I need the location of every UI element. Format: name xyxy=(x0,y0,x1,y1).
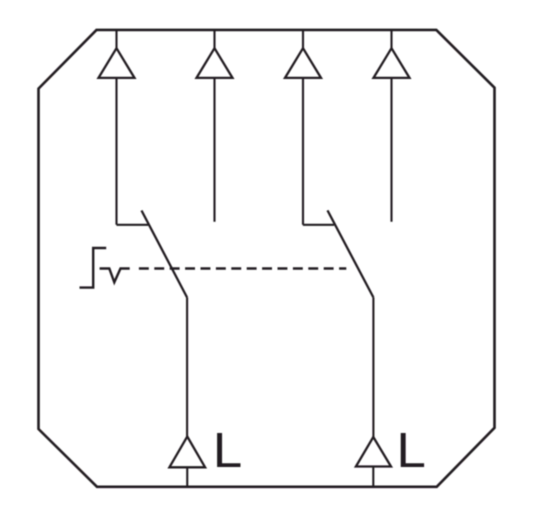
label L (left) xyxy=(213,424,243,478)
wire: S1 to terminal L1 xyxy=(186,298,188,439)
step-function symbol xyxy=(80,248,107,288)
switch S1 blade xyxy=(142,211,188,298)
wire: S2 to terminal L2 xyxy=(372,297,374,438)
svg-text:L: L xyxy=(396,424,426,478)
arrow head output 3 xyxy=(285,48,321,78)
device outline xyxy=(39,30,495,487)
svg-text:L: L xyxy=(213,424,243,478)
wire: arrow 4 down (open end) xyxy=(390,78,392,222)
label L (right) xyxy=(396,424,426,478)
mechanical coupling dashed line xyxy=(139,267,346,269)
wire: top edge to arrow 2 xyxy=(213,30,215,50)
wire: top edge to arrow 3 xyxy=(302,30,304,50)
wire: arrow 2 down (open end) xyxy=(213,78,215,222)
wire: terminal L1 stem xyxy=(186,467,188,487)
switch S2 blade xyxy=(328,210,374,297)
wire: switch S2 fixed contact horizontal xyxy=(303,224,334,226)
terminal L1 arrow head xyxy=(169,437,205,468)
wire: top edge to arrow 1 xyxy=(115,30,117,50)
wire: arrow 1 down to switch xyxy=(115,78,117,225)
wire: switch S1 fixed contact horizontal xyxy=(117,224,150,226)
arrow head output 4 xyxy=(374,48,410,78)
wire: terminal L2 stem xyxy=(372,467,374,487)
wire: top edge to arrow 4 xyxy=(390,30,392,50)
mechanical coupling v-notch xyxy=(100,269,130,283)
wire: arrow 3 down to switch xyxy=(302,78,304,225)
arrow head output 1 xyxy=(99,48,135,78)
arrow head output 2 xyxy=(197,48,233,78)
terminal L2 arrow head xyxy=(356,437,391,467)
